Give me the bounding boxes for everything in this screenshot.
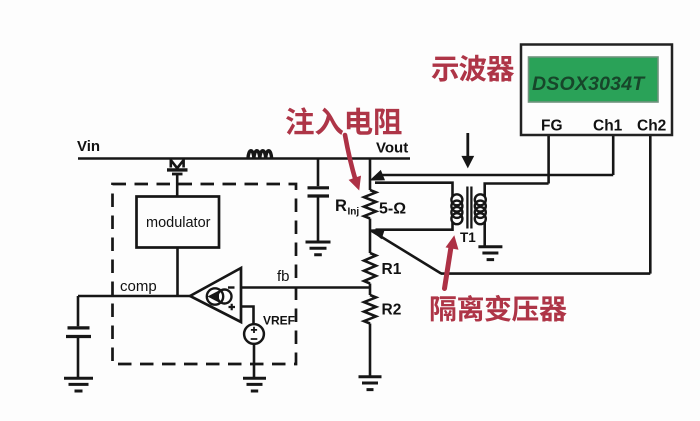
wire Ch2 — [441, 135, 650, 274]
label VREF — [263, 314, 295, 328]
transformer T1 — [451, 187, 485, 229]
svg-text:DSOX3034T: DSOX3034T — [532, 73, 646, 95]
svg-text:FG: FG — [541, 118, 563, 135]
label Vin — [77, 138, 100, 155]
source VREF — [241, 307, 264, 378]
label 5-Ω — [379, 201, 406, 218]
modulator block — [137, 197, 220, 248]
wire FG — [547, 135, 550, 184]
annotation arrow pointing down at transformer — [461, 133, 474, 168]
svg-text:5-Ω: 5-Ω — [379, 201, 406, 218]
wire Vin to Vout node — [78, 157, 410, 160]
wire diagonal Rinj bottom to Ch2 line — [371, 231, 441, 274]
wire primary bottom — [483, 222, 486, 246]
svg-text:VREF: VREF — [263, 314, 295, 328]
label FG — [541, 118, 563, 135]
wire primary top — [485, 184, 549, 197]
injection node arrow (bottom) — [370, 229, 386, 240]
ground (C1) — [64, 378, 93, 391]
red label 注入电阻 (injection resistor) — [286, 107, 401, 135]
transistor Q1 (switch) — [167, 159, 188, 197]
svg-text:fb: fb — [277, 268, 290, 285]
label Ch1 — [593, 118, 623, 135]
capacitor C2 (output) — [308, 159, 330, 241]
svg-text:Vout: Vout — [376, 140, 408, 157]
svg-text:Ch2: Ch2 — [637, 118, 666, 135]
wire Rinj top to secondary top — [375, 183, 453, 197]
wire modulator to comp node — [176, 248, 179, 297]
svg-text:Ch1: Ch1 — [593, 118, 623, 135]
red arrow to T1 — [445, 235, 459, 288]
label R2 — [382, 302, 402, 319]
svg-text:comp: comp — [120, 278, 157, 295]
red arrow to Rinj — [345, 135, 361, 191]
label T1 — [460, 230, 476, 245]
svg-text:R1: R1 — [382, 261, 402, 278]
ground (VREF) — [243, 378, 266, 391]
label Vout — [376, 140, 408, 157]
label Ch2 — [637, 118, 666, 135]
label Rinj — [335, 197, 359, 218]
oscilloscope screen DSOX3034T — [529, 57, 659, 102]
resistor R2 — [364, 295, 376, 376]
label comp — [120, 278, 157, 295]
resistor Rinj — [364, 159, 376, 254]
wire secondary bottom to Rinj bottom — [376, 222, 453, 230]
red label 隔离变压器 (isolation transformer) — [431, 295, 567, 322]
svg-text:R: R — [335, 197, 347, 215]
ground (R2) — [359, 377, 382, 390]
dashed box (controller boundary) — [113, 184, 297, 364]
label fb — [277, 268, 290, 285]
wire Rinj top to Ch1 — [380, 174, 613, 177]
red label 示波器 (oscilloscope) — [432, 55, 515, 82]
injection node arrow (top) — [370, 170, 386, 181]
capacitor C1 (comp compensation) — [66, 296, 91, 377]
ground (transformer primary) — [478, 247, 502, 260]
svg-text:Vin: Vin — [77, 138, 100, 155]
svg-text:R2: R2 — [382, 302, 402, 319]
svg-text:Inj: Inj — [348, 207, 360, 218]
wire Ch1 vertical — [612, 135, 615, 175]
op-amp U1 (error amplifier) — [190, 268, 241, 322]
svg-text:modulator: modulator — [146, 215, 211, 231]
wire comp — [78, 295, 191, 298]
resistor R1 — [364, 253, 376, 295]
label R1 — [382, 261, 402, 278]
wire fb — [241, 286, 370, 289]
inductor L1 — [248, 151, 272, 159]
svg-text:T1: T1 — [460, 230, 476, 245]
oscilloscope box — [521, 45, 672, 136]
ground (C2) — [306, 242, 331, 255]
